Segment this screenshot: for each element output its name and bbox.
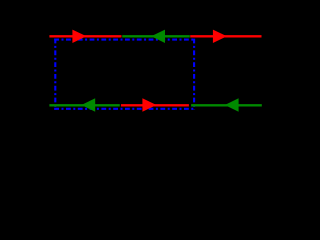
wire: bottom green left-moving segment (right)	[191, 104, 262, 106]
blue dashed loop: bottom side	[54, 108, 194, 110]
arrow: top-left red, pointing right	[72, 30, 86, 43]
arrow: top-right red, pointing right	[213, 30, 227, 43]
arrow: bottom-right green, pointing left	[225, 98, 239, 111]
arrow: bottom-left green, pointing left	[81, 98, 95, 111]
arrow: top-middle green, pointing left	[151, 30, 165, 43]
arrow: bottom-middle red, pointing right	[142, 98, 156, 111]
wire: bottom red right-moving segment (middle)	[121, 104, 189, 106]
blue dashed loop: top side	[54, 39, 194, 41]
blue dashed loop: right side	[193, 39, 195, 110]
wire: top red right-moving segment (right)	[190, 35, 261, 37]
wire: bottom green left-moving segment (left)	[49, 104, 119, 106]
wire: top green left-moving segment (middle)	[122, 35, 190, 37]
wire: top red right-moving segment (left)	[49, 35, 121, 37]
blue dashed loop: left side	[54, 39, 56, 110]
